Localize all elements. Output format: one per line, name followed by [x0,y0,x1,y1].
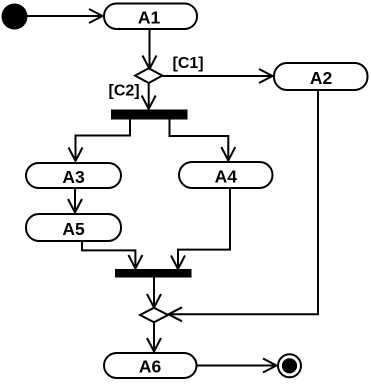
wire A3 to A5 [68,189,82,213]
activity A2 [274,63,368,90]
wire merge to A6 [147,322,161,351]
wire initial to A1 [26,9,103,23]
wire A1 to decision [143,29,157,69]
activity A3 [26,163,121,188]
svg-text:A1: A1 [138,7,161,27]
wire D1 to fork [142,83,156,109]
wire A5 to join [82,242,142,269]
final node [278,354,301,377]
merge diamond D2 [140,308,168,323]
wire fork to A4 [170,120,236,161]
svg-text:A4: A4 [215,166,238,186]
svg-text:[C1]: [C1] [173,55,204,72]
activity A4 [179,162,273,188]
activity A1 [104,4,197,30]
join bar [115,269,192,278]
activity A5 [26,214,121,241]
svg-text:A2: A2 [310,68,333,88]
fork bar [111,110,188,120]
activity A6 [104,353,197,378]
wire D1 to A2 [162,69,272,83]
initial node [2,4,28,30]
wire A6 to final [197,359,277,373]
svg-text:A3: A3 [62,167,85,187]
wire join to merge [147,278,161,308]
wire fork to A3 [69,120,131,162]
svg-text:A5: A5 [62,219,85,239]
svg-text:[C2]: [C2] [109,83,140,100]
wire A4 to join [171,189,230,270]
svg-text:A6: A6 [139,357,162,377]
wire A2 to merge [169,90,319,321]
decision diamond D1 [135,68,162,83]
